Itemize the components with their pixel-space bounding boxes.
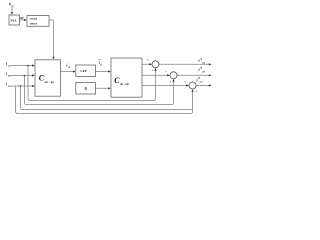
arrowhead into LPF bbox=[73, 70, 76, 72]
label C1 with subscript abc-dq bbox=[39, 73, 54, 84]
wire summer2 output bbox=[177, 74, 210, 76]
label ica-star output1 bbox=[198, 58, 205, 65]
wire input iLa bbox=[10, 65, 33, 67]
cos-sin box bbox=[27, 16, 49, 27]
wire C2 to summer 3 bbox=[142, 85, 187, 87]
arrowhead 0-box into C2 bbox=[108, 87, 111, 89]
junction dot iLb tap bbox=[24, 75, 26, 77]
svg-text:dq→abc: dq→abc bbox=[120, 83, 130, 86]
transform block C2 dq to abc bbox=[111, 58, 142, 97]
junction dot iLa tap bbox=[27, 65, 29, 67]
arrowhead iLc into C1 bbox=[32, 85, 35, 87]
svg-text:abc→dq: abc→dq bbox=[45, 81, 55, 84]
label id bbox=[66, 63, 70, 69]
summer 2 bbox=[170, 72, 177, 79]
wire C2 to summer 2 bbox=[142, 74, 168, 76]
label vs at PLL input bbox=[9, 1, 15, 7]
arrowhead bus1 into summer1 bottom bbox=[154, 68, 156, 71]
wire input iLc bbox=[10, 85, 33, 87]
wire feedback bus 3: iLc tap to summer3 bbox=[20, 86, 192, 110]
wire summer1 output bbox=[159, 63, 210, 65]
arrowhead into summer3 left bbox=[186, 84, 189, 86]
arrowhead into C1 top bbox=[52, 57, 54, 60]
label C2 with subscript dq-abc bbox=[114, 76, 130, 86]
label icc-star output3 bbox=[196, 77, 203, 84]
arrowhead into PLL bbox=[11, 12, 13, 15]
arrowhead summer1 output end bbox=[209, 63, 212, 65]
wire C1 to LPF bbox=[61, 71, 75, 73]
arrowhead iLb into C1 bbox=[32, 74, 35, 76]
label id-bar after LPF bbox=[98, 60, 102, 67]
wire PLL to cos-sin bbox=[20, 19, 26, 21]
wire feedback bus 2: iLb tap to summer2 bbox=[24, 76, 173, 105]
arrowhead into summer2 left bbox=[167, 74, 170, 76]
arrowhead bus4 into summer3 bottom bbox=[191, 89, 193, 92]
svg-text:cosωt: cosωt bbox=[30, 17, 38, 21]
wire 0-box to C2 bbox=[96, 87, 110, 89]
arrowhead into summer1 left bbox=[149, 63, 152, 65]
wire C2 to summer 1 bbox=[142, 63, 150, 65]
wire vs to PLL bbox=[11, 6, 13, 14]
arrowhead summer3 output end bbox=[209, 84, 212, 86]
arrowhead LPF into C2 bbox=[108, 70, 111, 72]
zero box bbox=[76, 83, 96, 95]
label iLc bbox=[6, 82, 11, 88]
LPF box bbox=[76, 65, 96, 77]
wire cos-sin to C1 top bbox=[49, 20, 54, 57]
junction dot iLc tap bbox=[20, 85, 22, 87]
label iLa bbox=[6, 61, 11, 67]
transform block C1 abc to dq bbox=[35, 60, 61, 96]
svg-text:sinωt: sinωt bbox=[30, 21, 38, 25]
label omega-t bbox=[20, 16, 25, 20]
svg-text:LPF: LPF bbox=[80, 69, 86, 73]
summer 3 bbox=[189, 82, 196, 89]
arrowhead iLa into C1 bbox=[32, 64, 35, 66]
arrowhead bus2 into summer2 bottom bbox=[172, 79, 174, 82]
PLL box bbox=[9, 15, 20, 25]
summer 1 bbox=[152, 61, 159, 68]
label iLb bbox=[6, 71, 11, 77]
arrowhead into cos-sin box bbox=[24, 19, 27, 21]
wire feedback bus 1: iLa tap to summer1 bbox=[28, 66, 156, 101]
label cos sin lines bbox=[30, 17, 38, 26]
wire LPF to C2 bbox=[96, 71, 110, 73]
svg-text:PLL: PLL bbox=[11, 18, 18, 22]
svg-text:0: 0 bbox=[85, 86, 87, 91]
arrowhead summer2 output end bbox=[209, 74, 212, 76]
label icb-star output2 bbox=[198, 67, 205, 74]
wire input iLb bbox=[10, 75, 33, 77]
wire summer3 output bbox=[196, 85, 210, 87]
wire feedback bus 4: iLc tap to summer3 lower run bbox=[16, 86, 193, 114]
